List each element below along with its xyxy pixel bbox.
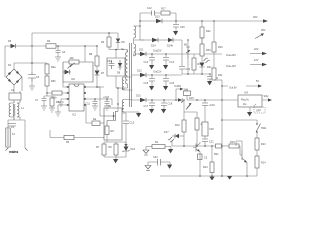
fuse F1 bbox=[6, 128, 16, 147]
svg-text:R15: R15 bbox=[230, 141, 235, 144]
svg-text:R17: R17 bbox=[161, 8, 166, 11]
capacitor C18 bbox=[161, 100, 173, 109]
capacitor C12 bbox=[147, 7, 155, 16]
capacitor C14 bbox=[163, 54, 175, 65]
out 22V arrow bbox=[226, 48, 267, 57]
node A junction bbox=[31, 45, 33, 47]
svg-text:R22: R22 bbox=[206, 30, 211, 33]
svg-text:D17: D17 bbox=[164, 131, 169, 134]
bridge rectifier D1 bbox=[6, 64, 22, 85]
svg-text:R13: R13 bbox=[261, 143, 266, 146]
svg-text:Out12V: Out12V bbox=[153, 71, 162, 74]
wire IC1 pin3 gnd bbox=[61, 99, 67, 102]
resistor R10 bbox=[212, 21, 223, 68]
svg-text:C15: C15 bbox=[144, 82, 149, 85]
IC4 regulator bbox=[222, 92, 268, 108]
ground (C16) bbox=[163, 86, 168, 90]
svg-text:Out 5V: Out 5V bbox=[229, 87, 237, 90]
resistor R12 bbox=[175, 120, 186, 146]
svg-text:D21: D21 bbox=[207, 66, 212, 69]
svg-text:C12: C12 bbox=[130, 122, 135, 125]
resistor R6 bbox=[105, 126, 114, 142]
svg-text:C21: C21 bbox=[209, 141, 214, 144]
svg-text:R24: R24 bbox=[203, 166, 208, 169]
wire IC1 pin4 bbox=[58, 105, 67, 112]
svg-text:D10: D10 bbox=[131, 148, 136, 151]
svg-text:C13: C13 bbox=[144, 61, 149, 64]
ic IC1 PWM controller (8-pin DIP) bbox=[67, 84, 86, 117]
LED D21 bbox=[200, 58, 213, 74]
ground (C14) bbox=[163, 65, 168, 69]
ground (pin3) bbox=[58, 102, 64, 106]
resistor R34 bbox=[200, 37, 211, 62]
transistor Q2a bbox=[184, 100, 192, 120]
diode D14b bbox=[167, 38, 182, 66]
wire lower long row bbox=[50, 130, 104, 138]
out 12V arrow bbox=[226, 59, 267, 68]
diode D8 bbox=[117, 60, 122, 75]
diode D14 bbox=[140, 38, 168, 48]
resistor R11 bbox=[212, 68, 223, 80]
regulator M1 bbox=[184, 39, 190, 74]
transistor Q2 bbox=[193, 142, 200, 176]
wire opto to IC pin bbox=[63, 82, 67, 87]
out 6V arrow bbox=[174, 85, 184, 100]
wire 5V row bbox=[146, 99, 222, 101]
resistor R15 bbox=[222, 141, 243, 155]
resistor R16 bridge bbox=[146, 141, 171, 149]
svg-text:Out+12V: Out+12V bbox=[226, 65, 236, 68]
ground (source) bbox=[113, 159, 118, 163]
svg-text:12V: 12V bbox=[254, 59, 259, 62]
wire gnd row bbox=[104, 157, 126, 159]
diode D11 bbox=[139, 49, 146, 57]
opto box IC2 bbox=[63, 62, 93, 82]
svg-text:R34: R34 bbox=[206, 49, 211, 52]
wire bridge DC- bbox=[13, 85, 15, 91]
ground (R5a) bbox=[49, 108, 55, 112]
arrow 25V bbox=[255, 29, 266, 39]
svg-text:C33: C33 bbox=[153, 156, 158, 159]
snubber box C9a/D8 bbox=[107, 49, 125, 76]
capacitor C19 bbox=[202, 99, 215, 122]
svg-text:+C19: +C19 bbox=[209, 104, 216, 107]
capacitor C15 bbox=[144, 75, 156, 86]
svg-text:D14b: D14b bbox=[167, 45, 174, 48]
svg-text:M1: M1 bbox=[184, 44, 188, 47]
svg-text:SW1: SW1 bbox=[261, 127, 267, 130]
ground (primary, C3) bbox=[29, 86, 35, 90]
LED D17 bbox=[164, 131, 184, 142]
svg-text:R6a: R6a bbox=[51, 66, 56, 69]
ground (C18) bbox=[161, 109, 166, 113]
svg-text:Out6V: Out6V bbox=[174, 85, 181, 88]
capacitor C1 bbox=[8, 124, 16, 130]
svg-text:+C10: +C10 bbox=[103, 96, 110, 99]
capacitor C16 bbox=[163, 75, 175, 86]
svg-text:C14: C14 bbox=[170, 61, 175, 64]
wire 12V row bbox=[146, 74, 182, 76]
wire 26V rail bbox=[139, 20, 263, 22]
resistor R17 bbox=[161, 8, 170, 16]
capacitor C13 bbox=[144, 54, 156, 65]
ground (C30) bbox=[173, 31, 178, 35]
ground (R16 right) bbox=[168, 147, 173, 154]
resistor 40k bbox=[69, 57, 79, 64]
label OFF bbox=[253, 104, 265, 113]
resistor Ra bbox=[92, 118, 104, 126]
wire IC1 right pin3 row y=99 bbox=[86, 99, 112, 105]
zener D10 bbox=[123, 142, 136, 157]
transformer TR1 core bbox=[130, 43, 132, 107]
inductor L1 common-mode choke bbox=[9, 102, 24, 121]
resistor R4 bbox=[46, 40, 56, 48]
capacitor C22 bbox=[207, 74, 219, 81]
wire bottom rail y=176 bbox=[160, 175, 257, 177]
wire 22V row bbox=[138, 50, 222, 55]
ground (C17) bbox=[149, 109, 154, 113]
ground (IC4) bbox=[247, 107, 252, 116]
ground (C13) bbox=[149, 65, 154, 69]
capacitor C3 bbox=[28, 72, 40, 82]
resistor R5b bbox=[46, 91, 69, 100]
arrow standby bbox=[264, 95, 273, 102]
resistor R2 snubber bbox=[101, 32, 111, 49]
capacitor C17 bbox=[144, 100, 156, 109]
label Out12V bbox=[153, 71, 162, 74]
diode D12 bbox=[137, 70, 146, 78]
wire IC1 right pin1 row bbox=[86, 86, 100, 88]
wire drop to opto bbox=[84, 45, 86, 62]
svg-text:26V: 26V bbox=[253, 16, 258, 19]
svg-text:Stby: Stby bbox=[264, 95, 270, 98]
ground (bottom rail) bbox=[227, 176, 232, 180]
wire top rail y=33 bbox=[32, 32, 118, 34]
svg-text:Out22V: Out22V bbox=[153, 50, 162, 53]
resistor R14 bbox=[255, 156, 266, 176]
wire snubber to drain bbox=[115, 76, 117, 88]
MOSFET box X1 bbox=[104, 108, 122, 140]
ground (R24 rail) bbox=[209, 177, 214, 181]
svg-text:Reg 5v: Reg 5v bbox=[241, 99, 250, 102]
switch SW1 bbox=[256, 123, 267, 138]
transformer aux winding (top right) bbox=[134, 25, 141, 40]
transistor X1 bbox=[104, 87, 119, 126]
capacitor C11 bbox=[86, 98, 98, 106]
svg-text:D12: D12 bbox=[137, 70, 142, 73]
transformer primary winding bbox=[116, 50, 128, 89]
svg-text:D15: D15 bbox=[136, 95, 141, 98]
resistor R22 bbox=[200, 21, 211, 44]
resistor R6b bbox=[45, 74, 56, 93]
mains terminals bbox=[6, 148, 28, 154]
capacitor C33 bbox=[148, 156, 170, 166]
wire bulk rail x=32 bbox=[31, 33, 33, 86]
svg-text:25V: 25V bbox=[261, 29, 266, 32]
resistor R13b bbox=[255, 138, 266, 156]
resistor R35 bbox=[192, 54, 203, 74]
ground (C15) bbox=[149, 86, 154, 90]
ground (C7) bbox=[41, 106, 47, 110]
ground (C11) bbox=[92, 106, 98, 110]
svg-text:D13: D13 bbox=[155, 16, 160, 19]
wire right bus x=222 bbox=[221, 80, 223, 176]
out 5V arrow bbox=[222, 80, 262, 90]
resistor R24 bbox=[203, 146, 214, 176]
svg-text:IC1: IC1 bbox=[72, 114, 77, 117]
svg-text:R35: R35 bbox=[198, 63, 203, 66]
resistor R9 bbox=[109, 142, 119, 157]
capacitor C10 bbox=[103, 96, 110, 106]
svg-text:C12: C12 bbox=[147, 7, 152, 10]
transformer secondary winding 2 bbox=[122, 75, 140, 90]
ground (C10) bbox=[104, 106, 110, 110]
resistor R5a bbox=[47, 96, 61, 108]
transformer secondary winding 3 bbox=[121, 48, 140, 113]
transformer secondary winding 1 bbox=[134, 40, 144, 56]
svg-text:D11: D11 bbox=[139, 49, 144, 52]
svg-text:5V: 5V bbox=[256, 80, 259, 83]
wire SW branch bbox=[222, 120, 257, 124]
svg-text:3V6: 3V6 bbox=[184, 89, 189, 92]
resistor R13 (4k7) bbox=[184, 112, 205, 146]
wire D6 row y=46 bbox=[5, 46, 97, 77]
svg-text:OFF: OFF bbox=[256, 110, 261, 113]
diode D6 bbox=[8, 40, 16, 48]
wire mains pair bbox=[8, 117, 25, 148]
wire mid bottom row y=146 bbox=[172, 140, 216, 147]
svg-text:R11: R11 bbox=[218, 74, 223, 77]
svg-text:R10: R10 bbox=[218, 46, 223, 49]
capacitor C2 bbox=[9, 89, 21, 103]
wire bridge AC right bbox=[21, 77, 23, 91]
ground (C33 right) bbox=[167, 162, 172, 169]
resistor R8 bbox=[89, 45, 99, 66]
ground (C22) bbox=[207, 81, 212, 85]
svg-text:R5a: R5a bbox=[56, 101, 61, 104]
wire C12 row top bbox=[140, 13, 176, 40]
capacitor C4 bbox=[56, 45, 66, 57]
svg-text:R21: R21 bbox=[214, 153, 219, 156]
svg-text:D14: D14 bbox=[151, 45, 156, 48]
label 1b bbox=[122, 88, 125, 91]
wire IC1 pin5 to Ra row bbox=[86, 105, 92, 123]
svg-text:IC4: IC4 bbox=[244, 92, 249, 95]
capacitor C12b bbox=[122, 113, 135, 147]
resistor R21 bbox=[214, 144, 222, 156]
diode D9 bbox=[116, 33, 126, 50]
svg-text:C17: C17 bbox=[144, 105, 149, 108]
ground (R16 left, earth) bbox=[143, 147, 149, 156]
svg-text:C30: C30 bbox=[180, 26, 185, 29]
resistor R6a bbox=[45, 63, 56, 74]
diode D15 bbox=[136, 95, 146, 103]
resistor R5 bbox=[64, 135, 74, 144]
diode D7 bbox=[95, 66, 105, 87]
svg-text:C18: C18 bbox=[168, 103, 173, 106]
wire source row bbox=[104, 141, 126, 143]
svg-text:D16: D16 bbox=[189, 97, 194, 100]
svg-text:C9a: C9a bbox=[107, 60, 112, 63]
svg-text:IC2: IC2 bbox=[71, 78, 76, 81]
resistor R7 bbox=[96, 142, 106, 157]
svg-text:R6b: R6b bbox=[51, 80, 56, 83]
capacitor C30 bbox=[173, 21, 185, 31]
ground (secondary return) bbox=[136, 113, 141, 117]
wire primary top bbox=[109, 50, 127, 53]
opto LED IC2 bbox=[63, 63, 76, 81]
wire bridge DC+ to y=63 bbox=[14, 62, 47, 69]
ground (pin4) bbox=[55, 112, 61, 116]
wire gate bbox=[97, 87, 104, 116]
capacitor C21 bbox=[202, 136, 214, 146]
svg-text:C28: C28 bbox=[209, 128, 214, 131]
capacitor C28 bbox=[202, 122, 214, 136]
ground (C33 left, earth) bbox=[145, 162, 151, 171]
ground (C4) bbox=[55, 57, 61, 61]
wire reg row y=74 bbox=[182, 73, 211, 75]
capacitor C7 bbox=[35, 93, 47, 106]
svg-text:R14: R14 bbox=[261, 162, 266, 165]
resistor 3V6 bbox=[184, 89, 191, 101]
capacitor C9a bbox=[107, 60, 115, 69]
svg-text:Out+22V: Out+22V bbox=[226, 54, 236, 57]
diode D13 bbox=[155, 16, 162, 24]
capacitor C23 bbox=[198, 154, 208, 160]
svg-text:R12: R12 bbox=[175, 124, 180, 127]
arrow 26V bbox=[253, 16, 268, 23]
svg-text:mains: mains bbox=[9, 150, 18, 154]
svg-text:22V: 22V bbox=[254, 48, 259, 51]
zener D16 bbox=[178, 97, 194, 103]
transistor Q3 bbox=[236, 141, 247, 176]
capacitor C20 bbox=[179, 67, 191, 75]
